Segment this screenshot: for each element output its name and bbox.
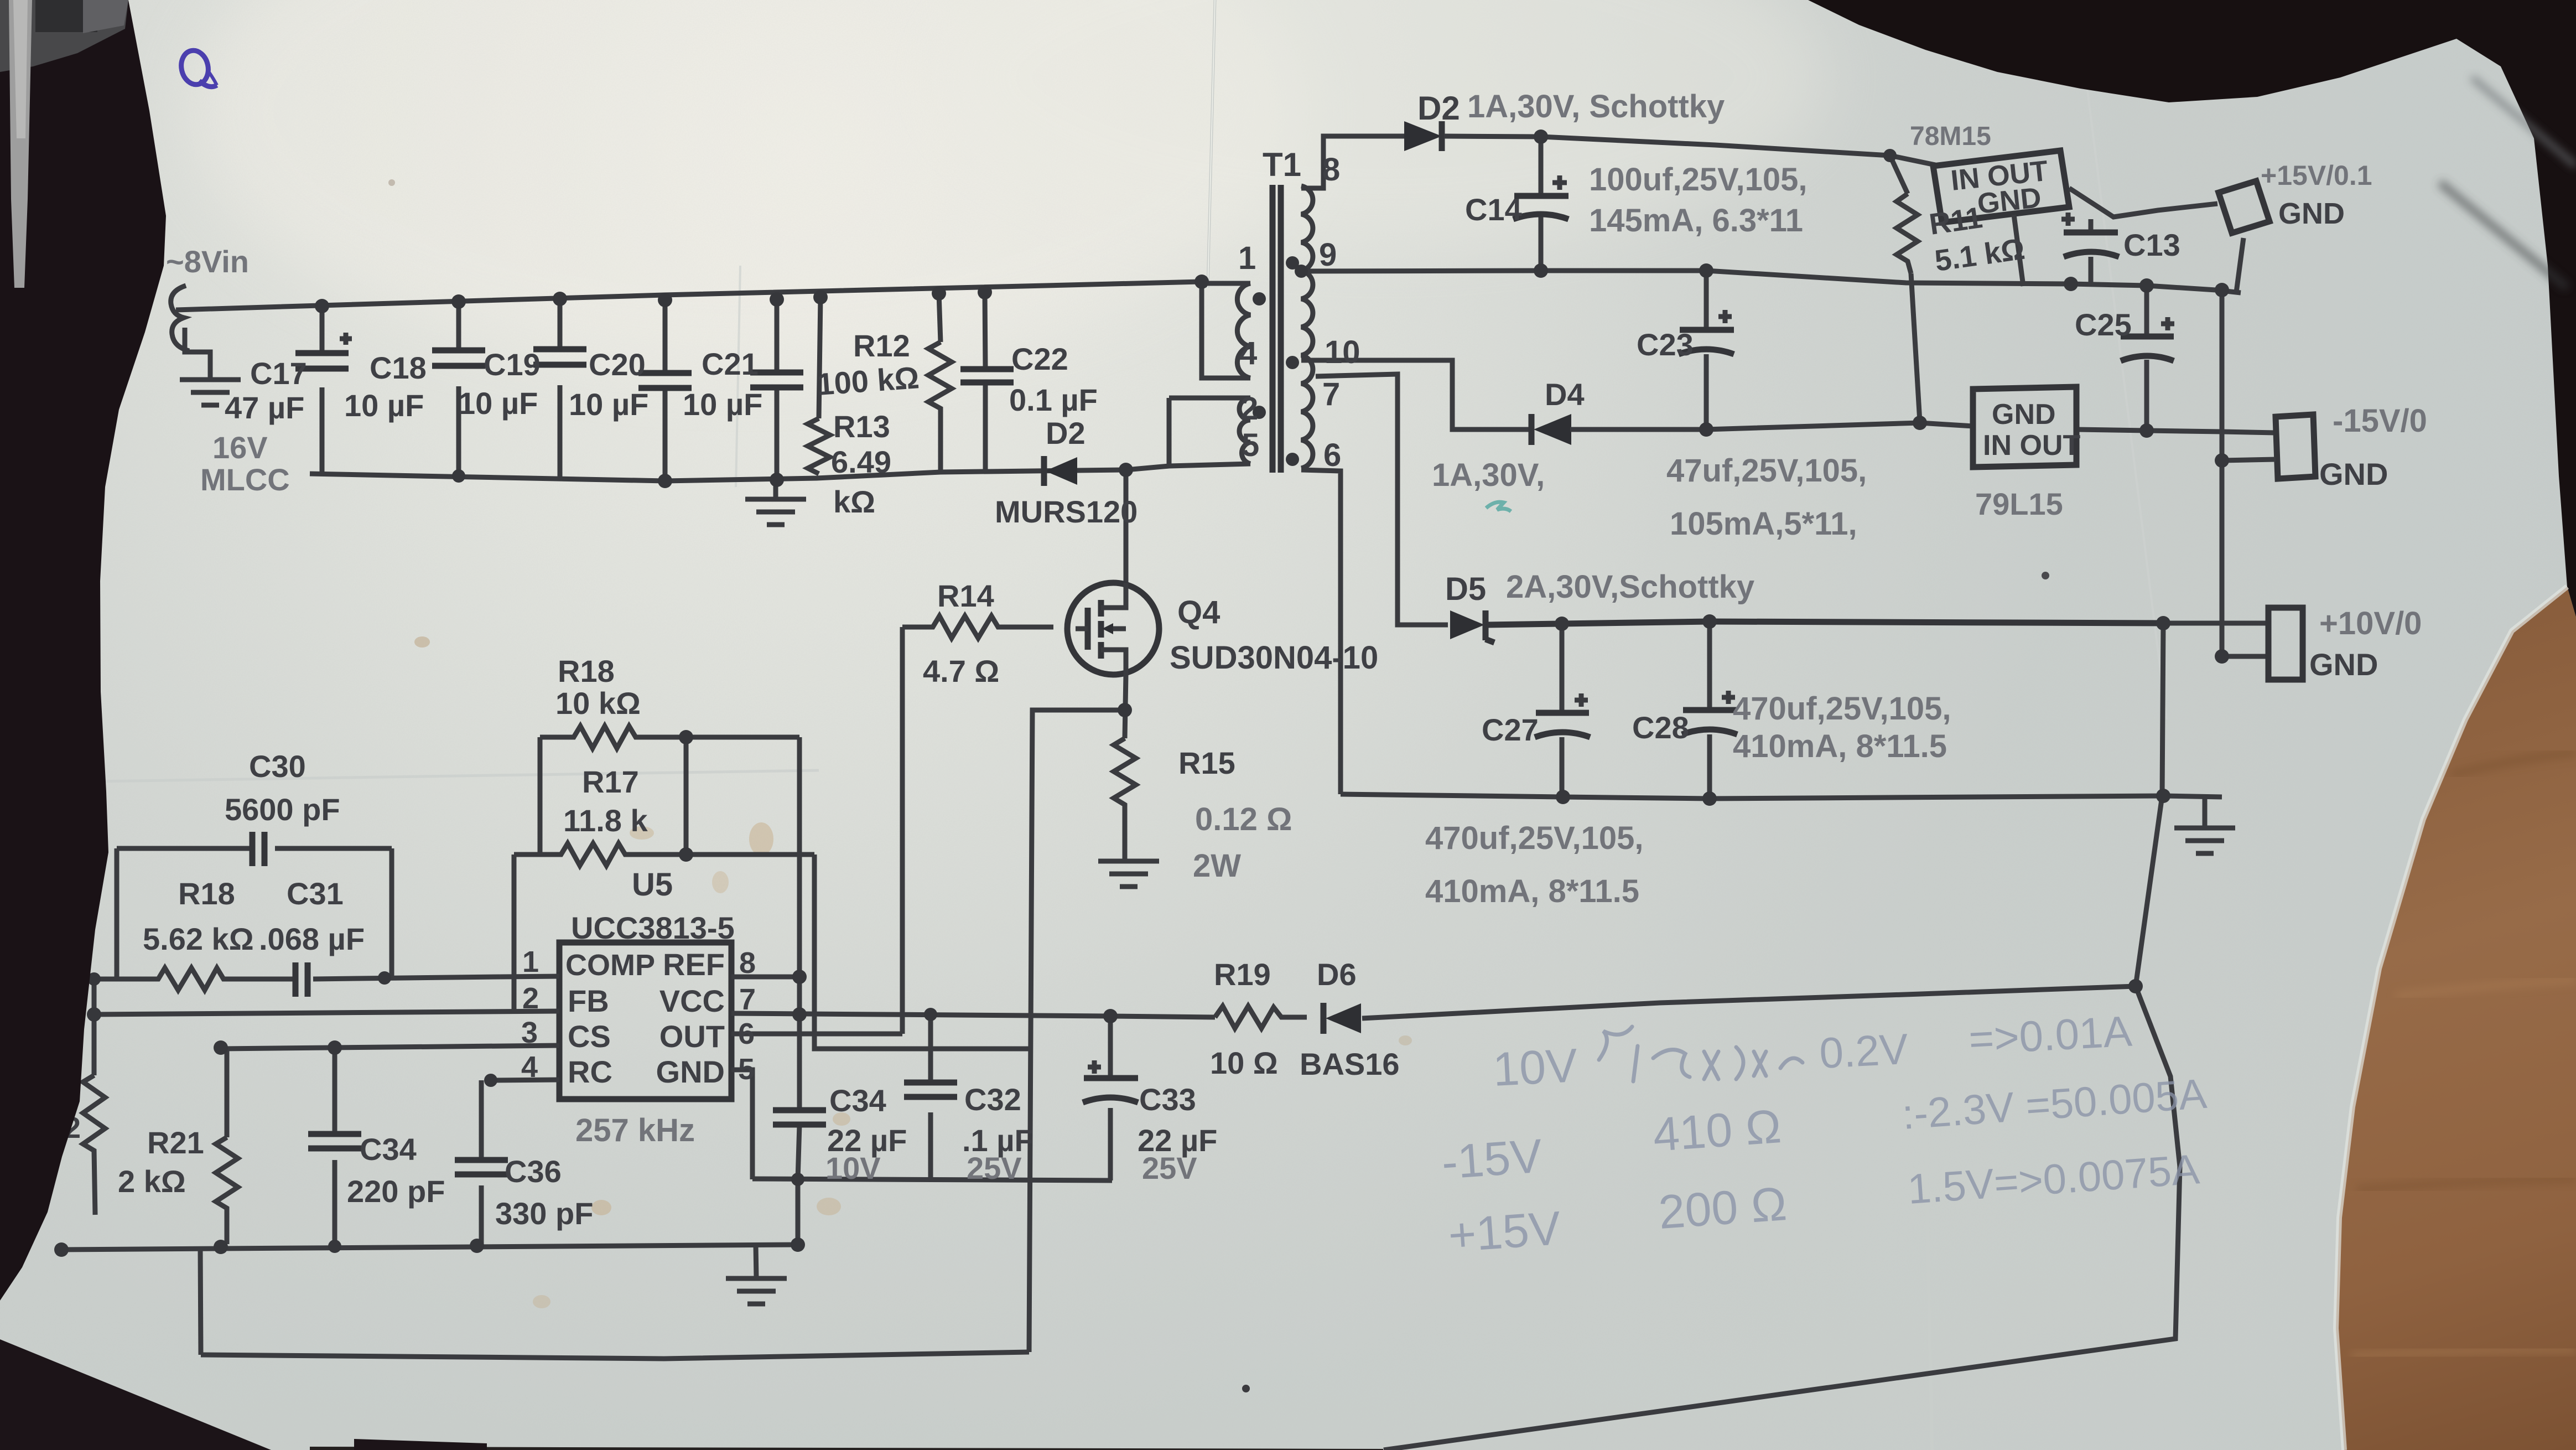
svg-text:5600 pF: 5600 pF: [225, 792, 340, 827]
svg-text:FB: FB: [568, 983, 609, 1018]
svg-text:1: 1: [522, 945, 539, 978]
svg-text:4: 4: [1239, 335, 1257, 371]
svg-text:1A,30V, Schottky: 1A,30V, Schottky: [1467, 89, 1725, 125]
svg-text:105mA,5*11,: 105mA,5*11,: [1670, 506, 1857, 542]
svg-text:330 pF: 330 pF: [495, 1196, 593, 1231]
svg-text:4.7 Ω: 4.7 Ω: [923, 654, 999, 688]
svg-text:+15V/0.1: +15V/0.1: [2261, 160, 2372, 191]
svg-text:BAS16: BAS16: [1300, 1047, 1400, 1081]
svg-text:R19: R19: [1214, 957, 1271, 992]
svg-text:10V: 10V: [1492, 1039, 1579, 1096]
svg-text:470uf,25V,105,: 470uf,25V,105,: [1733, 691, 1951, 727]
svg-text:+10V/0: +10V/0: [2319, 605, 2422, 641]
svg-text:R15: R15: [1178, 745, 1235, 780]
svg-text:R21: R21: [147, 1125, 204, 1160]
svg-text:2 kΩ: 2 kΩ: [118, 1164, 186, 1199]
svg-text:145mA, 6.3*11: 145mA, 6.3*11: [1589, 203, 1803, 239]
svg-text:C34: C34: [829, 1083, 886, 1118]
svg-text:6: 6: [1323, 437, 1341, 473]
svg-text:5.62 kΩ: 5.62 kΩ: [143, 921, 254, 956]
svg-text:1: 1: [1238, 240, 1256, 276]
svg-text:11.8 k: 11.8 k: [563, 803, 648, 838]
svg-text:10: 10: [1325, 334, 1360, 370]
svg-text:C20: C20: [589, 347, 646, 382]
svg-text:T1: T1: [1263, 146, 1301, 183]
svg-text:C21: C21: [702, 346, 759, 381]
svg-text:C31: C31: [287, 876, 344, 911]
svg-text:=>0.01A: =>0.01A: [1967, 1007, 2133, 1064]
svg-text:C36: C36: [505, 1154, 562, 1189]
svg-text:MLCC: MLCC: [200, 462, 290, 497]
svg-text:47uf,25V,105,: 47uf,25V,105,: [1666, 453, 1867, 489]
svg-text:47 µF: 47 µF: [225, 390, 304, 425]
svg-text:C22: C22: [1011, 341, 1068, 376]
svg-text:R17: R17: [582, 764, 639, 799]
svg-text:0.12 Ω: 0.12 Ω: [1195, 801, 1292, 837]
svg-text:-15V/0: -15V/0: [2333, 403, 2427, 439]
svg-text:CS: CS: [568, 1019, 611, 1054]
svg-text:RC: RC: [568, 1054, 612, 1089]
svg-text:R12: R12: [853, 328, 910, 363]
svg-text:5: 5: [1242, 427, 1259, 463]
svg-text:C32: C32: [964, 1082, 1021, 1117]
svg-text:C34: C34: [360, 1132, 417, 1167]
svg-text:220 pF: 220 pF: [347, 1174, 445, 1209]
svg-text:C18: C18: [370, 350, 427, 385]
svg-text:GND: GND: [1992, 398, 2056, 431]
svg-text:257 kHz: 257 kHz: [575, 1112, 695, 1148]
svg-text:6.49: 6.49: [831, 444, 891, 479]
svg-text:C23: C23: [1637, 327, 1694, 362]
svg-text:C27: C27: [1482, 712, 1539, 747]
svg-text:16V: 16V: [212, 430, 268, 465]
svg-text:10 kΩ: 10 kΩ: [555, 686, 641, 721]
svg-text:79L15: 79L15: [1975, 486, 2063, 521]
svg-text:3: 3: [521, 1016, 538, 1049]
svg-text:C28: C28: [1632, 710, 1689, 745]
svg-text:R13: R13: [833, 409, 890, 444]
svg-text:2: 2: [522, 982, 539, 1015]
svg-text:IN OUT: IN OUT: [1983, 429, 2080, 462]
svg-text:D4: D4: [1545, 377, 1585, 412]
svg-text:C33: C33: [1139, 1082, 1196, 1117]
svg-text:10 µF: 10 µF: [569, 387, 648, 422]
svg-text:200 Ω: 200 Ω: [1657, 1177, 1789, 1239]
svg-text:U5: U5: [632, 867, 673, 903]
svg-text:GND: GND: [2309, 647, 2378, 682]
svg-text:COMP: COMP: [565, 949, 655, 982]
svg-text:C25: C25: [2075, 307, 2132, 342]
svg-text:10 µF: 10 µF: [458, 386, 538, 421]
svg-text:25V: 25V: [1142, 1151, 1197, 1185]
svg-text:10V: 10V: [825, 1151, 881, 1185]
svg-text:C17: C17: [250, 356, 307, 391]
svg-text:8: 8: [739, 946, 756, 980]
svg-text:C13: C13: [2123, 227, 2180, 262]
svg-text:OUT: OUT: [659, 1019, 725, 1054]
svg-text:Q4: Q4: [1177, 594, 1220, 630]
svg-text:D6: D6: [1317, 957, 1357, 992]
svg-text:GND: GND: [656, 1054, 725, 1089]
svg-text:10 µF: 10 µF: [344, 388, 424, 423]
svg-text:5: 5: [738, 1053, 755, 1086]
svg-text:+15V: +15V: [1447, 1202, 1562, 1262]
svg-text:GND: GND: [2278, 197, 2345, 230]
svg-text:2W: 2W: [1193, 848, 1241, 884]
svg-text:78M15: 78M15: [1910, 122, 1991, 151]
svg-text:8: 8: [1322, 152, 1340, 188]
svg-text:D5: D5: [1445, 571, 1486, 607]
svg-text:4: 4: [521, 1050, 538, 1084]
svg-text:10 Ω: 10 Ω: [1210, 1045, 1278, 1080]
svg-text:9: 9: [1319, 237, 1337, 273]
svg-text:R18: R18: [558, 654, 615, 688]
svg-text:REF: REF: [663, 947, 725, 982]
svg-text:kΩ: kΩ: [833, 484, 875, 519]
svg-text:D2: D2: [1417, 90, 1460, 127]
svg-text:MURS120: MURS120: [995, 494, 1138, 529]
svg-text:410mA, 8*11.5: 410mA, 8*11.5: [1733, 728, 1947, 764]
svg-text:GND: GND: [2319, 457, 2388, 491]
svg-text:2: 2: [1240, 391, 1258, 427]
svg-text:D2: D2: [1046, 416, 1086, 450]
svg-text:10 µF: 10 µF: [683, 387, 762, 422]
svg-text:VCC: VCC: [659, 983, 725, 1018]
svg-text:25V: 25V: [967, 1151, 1022, 1185]
svg-text:7: 7: [1322, 376, 1340, 412]
svg-text:100uf,25V,105,: 100uf,25V,105,: [1589, 162, 1808, 198]
svg-text:C30: C30: [249, 749, 306, 784]
svg-text:C19: C19: [484, 347, 541, 382]
svg-text:.068 µF: .068 µF: [259, 921, 365, 956]
svg-text:R18: R18: [178, 876, 235, 911]
svg-text:410 Ω: 410 Ω: [1651, 1100, 1783, 1162]
svg-text:470uf,25V,105,: 470uf,25V,105,: [1425, 820, 1644, 856]
svg-text:UCC3813-5: UCC3813-5: [571, 910, 735, 945]
svg-text:410mA, 8*11.5: 410mA, 8*11.5: [1425, 873, 1639, 909]
svg-text:R14: R14: [937, 578, 994, 613]
svg-text:7: 7: [739, 983, 756, 1016]
svg-text:-15V: -15V: [1440, 1130, 1544, 1189]
svg-text:SUD30N04-10: SUD30N04-10: [1170, 640, 1378, 676]
svg-text:0.2V: 0.2V: [1818, 1024, 1909, 1078]
svg-text:~8Vin: ~8Vin: [166, 244, 249, 279]
svg-text:1A,30V,: 1A,30V,: [1432, 457, 1545, 493]
svg-text:100 kΩ: 100 kΩ: [816, 360, 920, 402]
svg-text:GND: GND: [1976, 182, 2043, 220]
svg-text:2A,30V,Schottky: 2A,30V,Schottky: [1506, 569, 1754, 605]
svg-text:C14: C14: [1465, 192, 1522, 227]
svg-text:6: 6: [738, 1017, 755, 1050]
svg-text:0.1 µF: 0.1 µF: [1009, 382, 1098, 417]
